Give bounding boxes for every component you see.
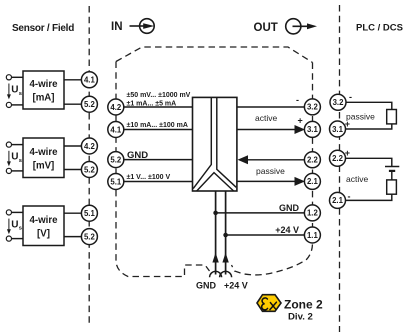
junction dot GND <box>213 211 218 216</box>
PLC terminal 2.1 <box>330 192 346 208</box>
4-wire transmitter box [mV] <box>23 138 64 178</box>
active load wire bottom <box>346 194 392 200</box>
wire module 4.2 to amplifier <box>124 106 193 108</box>
active load wire top <box>346 158 392 166</box>
resistor active load <box>387 180 397 194</box>
wire amplifier to 2.1 (arrow) <box>237 180 297 182</box>
svg-text:s: s <box>19 91 22 97</box>
module terminal 5.1 <box>108 174 124 190</box>
wire box1 bottom <box>11 104 23 106</box>
wire amplifier to 3.2 <box>237 106 305 108</box>
open terminal box2 top <box>6 142 11 147</box>
svg-text:4.2: 4.2 <box>110 103 122 112</box>
svg-text:U: U <box>11 85 18 96</box>
svg-text:active: active <box>346 174 368 184</box>
wire box2 top <box>11 144 23 146</box>
svg-text:passive: passive <box>256 166 285 176</box>
resistor passive load <box>387 110 397 124</box>
wire box1 top <box>11 76 23 78</box>
svg-text:U: U <box>11 219 18 230</box>
isolation amplifier box <box>193 97 237 191</box>
passive load wire bottom <box>346 124 392 129</box>
svg-text:+: + <box>298 116 303 126</box>
open terminal box2 bottom <box>6 168 11 173</box>
module boundary left side <box>116 62 210 277</box>
OUT symbol (arrow out of circle) <box>286 19 317 34</box>
4-wire transmitter box [V] <box>23 206 64 246</box>
module output terminal 2.1 <box>304 173 320 189</box>
svg-text:Div. 2: Div. 2 <box>288 312 313 323</box>
svg-text:2.2: 2.2 <box>307 156 319 165</box>
battery short plate <box>389 170 395 172</box>
svg-text:5.2: 5.2 <box>84 165 96 174</box>
PLC terminal 2.2 <box>330 150 346 166</box>
passive load wire top <box>346 102 392 109</box>
module output terminal 3.2 <box>304 99 320 115</box>
module terminal 4.2 <box>108 99 124 115</box>
svg-text:s: s <box>19 158 22 164</box>
svg-text:Sensor / Field: Sensor / Field <box>12 23 74 34</box>
open terminal box3 top <box>6 210 11 215</box>
module output terminal 3.1 <box>304 121 320 137</box>
svg-text:±10 mA... ±100 mA: ±10 mA... ±100 mA <box>127 122 188 129</box>
wire 2.2 to amplifier (passive, arrow into box) <box>244 159 305 161</box>
wire box3 bottom <box>11 238 23 240</box>
wire GND to 1.2 <box>216 212 305 214</box>
open terminal box1 top <box>6 75 11 80</box>
module boundary dashed outline <box>116 47 313 63</box>
wire box2 to terminal 4.2 <box>64 145 82 147</box>
module power terminal 1.2 <box>304 205 320 221</box>
svg-text:4-wire: 4-wire <box>30 215 59 226</box>
svg-text:2.2: 2.2 <box>332 154 344 163</box>
socket arc +24V <box>220 271 232 277</box>
svg-text:passive: passive <box>346 112 375 122</box>
svg-text:3.2: 3.2 <box>333 98 345 107</box>
module terminal 4.1 <box>108 122 124 138</box>
svg-text:[mA]: [mA] <box>32 93 54 104</box>
module power terminal 1.1 <box>304 227 320 243</box>
Us source arrow box3 <box>7 219 22 235</box>
svg-text:3.1: 3.1 <box>307 125 319 134</box>
svg-text:4.1: 4.1 <box>84 76 96 85</box>
sensor terminal 5.2 (mV) <box>81 162 97 178</box>
svg-text:[mV]: [mV] <box>33 161 55 172</box>
svg-text:Zone 2: Zone 2 <box>284 297 323 311</box>
svg-text:+: + <box>345 148 350 158</box>
svg-text:IN: IN <box>111 21 123 33</box>
Us source arrow box2 <box>7 151 22 167</box>
module terminal 5.2 <box>108 152 124 168</box>
wire box1 to terminal 5.2 <box>64 103 82 105</box>
svg-text:±50 mV... ±1000 mV: ±50 mV... ±1000 mV <box>127 92 191 99</box>
svg-text:5.2: 5.2 <box>84 100 96 109</box>
svg-text:3.1: 3.1 <box>332 125 344 134</box>
PLC terminal 3.2 <box>330 94 346 110</box>
battery to resistor wire <box>391 172 393 180</box>
svg-text:4.1: 4.1 <box>110 125 122 134</box>
wire box1 to terminal 4.1 <box>64 79 82 81</box>
open terminal box1 bottom <box>6 102 11 107</box>
power pin arrow +24V <box>222 253 228 263</box>
IN symbol (arrow into circle) <box>130 19 155 34</box>
power pin arrow GND <box>212 253 218 263</box>
svg-text:4-wire: 4-wire <box>30 147 59 158</box>
svg-text:GND: GND <box>196 281 217 291</box>
svg-text:5.2: 5.2 <box>84 232 96 241</box>
junction dot +24V <box>223 233 228 238</box>
power pin line +24V <box>225 191 227 275</box>
module boundary right side <box>232 63 313 275</box>
power pin line GND <box>215 191 217 275</box>
sensor terminal 5.2 <box>81 96 97 112</box>
zone boundary dashed line (PLC side) <box>339 5 341 332</box>
svg-text:+24 V: +24 V <box>275 225 299 235</box>
svg-text:active: active <box>255 113 277 123</box>
sensor terminal 4.1 <box>81 72 97 88</box>
svg-text:5.1: 5.1 <box>110 177 122 186</box>
sensor terminal 5.2 (V) <box>81 229 97 245</box>
svg-text:-: - <box>349 92 352 102</box>
sensor terminal 5.1 <box>81 205 97 221</box>
open terminal box3 bottom <box>6 236 11 241</box>
svg-text:[V]: [V] <box>37 229 50 240</box>
svg-text:5.2: 5.2 <box>110 155 122 164</box>
wire module 5.1 to amplifier <box>124 181 193 183</box>
svg-text:5.1: 5.1 <box>84 209 96 218</box>
svg-text:1.1: 1.1 <box>307 231 319 240</box>
svg-text:-: - <box>296 95 299 105</box>
socket arc GND <box>210 271 222 277</box>
4-wire transmitter box [mA] <box>23 71 64 109</box>
wire amplifier to 3.1 (active, arrow) <box>237 129 297 131</box>
svg-text:s: s <box>19 226 22 232</box>
svg-text:4-wire: 4-wire <box>30 79 59 90</box>
svg-text:-: - <box>348 192 351 202</box>
PLC terminal 3.1 <box>330 121 346 137</box>
svg-text:4.2: 4.2 <box>84 142 96 151</box>
svg-text:±1 mA... ±5 mA: ±1 mA... ±5 mA <box>127 100 177 107</box>
module output terminal 2.2 <box>304 152 320 168</box>
svg-text:2.1: 2.1 <box>332 196 344 205</box>
wire module 5.2 to amplifier <box>124 159 193 161</box>
wire box3 to terminal 5.1 <box>64 212 82 214</box>
Us source arrow box1 <box>7 84 22 100</box>
wire +24V to 1.1 <box>226 234 305 236</box>
Ex hexagon symbol <box>257 295 281 312</box>
wire module 4.1 to amplifier <box>124 129 193 131</box>
wire box2 to terminal 5.2 <box>64 169 82 171</box>
svg-text:1.2: 1.2 <box>307 209 319 218</box>
svg-text:+: + <box>345 119 350 129</box>
svg-text:2.1: 2.1 <box>307 177 319 186</box>
battery long plate <box>385 166 399 168</box>
svg-text:3.2: 3.2 <box>307 103 319 112</box>
svg-text:+24 V: +24 V <box>224 281 248 291</box>
svg-text:OUT: OUT <box>254 22 278 34</box>
wire box3 top <box>11 211 23 213</box>
sensor terminal 4.2 <box>81 138 97 154</box>
svg-text:U: U <box>11 152 18 163</box>
zone boundary dashed line (sensor side) <box>88 6 90 323</box>
wire box2 bottom <box>11 170 23 172</box>
svg-text:PLC / DCS: PLC / DCS <box>356 23 403 34</box>
wire box3 to terminal 5.2 <box>64 236 82 238</box>
svg-text:GND: GND <box>279 203 300 213</box>
svg-text:±1 V... ±100 V: ±1 V... ±100 V <box>127 174 171 181</box>
svg-text:GND: GND <box>127 150 148 161</box>
